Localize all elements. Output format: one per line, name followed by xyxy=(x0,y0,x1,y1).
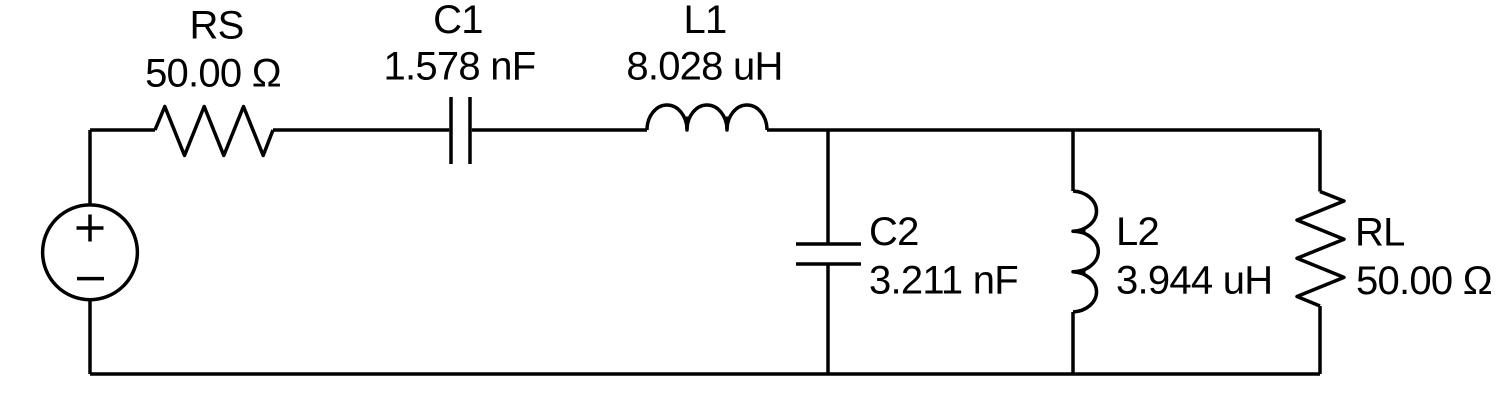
wire bottom rail xyxy=(90,372,1320,376)
capacitor C2 bottom plate xyxy=(796,262,861,266)
inductor L1 arcs xyxy=(647,105,767,130)
voltage source V1 circle xyxy=(43,205,138,300)
wire source top to top rail xyxy=(88,130,92,206)
svg-text:50.00 Ω: 50.00 Ω xyxy=(145,52,281,96)
svg-text:L2: L2 xyxy=(1116,210,1159,254)
wire source bottom xyxy=(88,299,92,374)
svg-text:3.944 uH: 3.944 uH xyxy=(1116,259,1272,303)
inductor L2 arcs xyxy=(1073,191,1098,312)
inductor L2 junction ticks xyxy=(1074,231,1086,271)
svg-text:L1: L1 xyxy=(684,0,727,42)
svg-text:50.00 Ω: 50.00 Ω xyxy=(1356,259,1492,303)
wire L2 top xyxy=(1071,130,1075,191)
capacitor C1 right plate xyxy=(468,97,472,164)
svg-text:C1: C1 xyxy=(433,0,483,42)
wire C2 bottom xyxy=(826,264,830,375)
svg-text:8.028 uH: 8.028 uH xyxy=(626,45,782,89)
capacitor C2 top plate xyxy=(796,242,861,246)
voltage source plus sign xyxy=(77,215,104,242)
resistor RL zigzag xyxy=(1297,192,1344,307)
wire top rail left segment xyxy=(90,128,155,132)
wire L2 bottom xyxy=(1071,312,1075,374)
wire top rail right segment xyxy=(767,128,1320,132)
svg-text:3.211 nF: 3.211 nF xyxy=(869,259,1018,303)
wire RS to C1 xyxy=(273,128,449,132)
wire C2 top xyxy=(826,130,830,244)
svg-text:RS: RS xyxy=(189,4,243,48)
wire RL top xyxy=(1318,130,1322,192)
inductor L1 junction ticks xyxy=(687,117,727,130)
svg-text:1.578 nF: 1.578 nF xyxy=(384,45,536,89)
svg-text:RL: RL xyxy=(1355,211,1405,255)
wire C1 to L1 xyxy=(472,128,647,132)
capacitor C1 left plate xyxy=(449,97,453,164)
svg-text:C2: C2 xyxy=(869,210,919,254)
wire RL bottom xyxy=(1318,306,1322,374)
voltage source minus sign xyxy=(77,277,104,281)
resistor RS zigzag xyxy=(155,107,273,156)
